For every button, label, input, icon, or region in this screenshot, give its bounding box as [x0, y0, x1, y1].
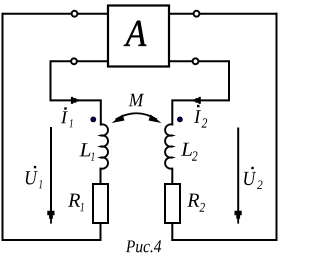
wire right outer vertical [276, 13, 278, 241]
inductor L2 (coil, humps left) [165, 124, 172, 168]
label I1 with overdot [61, 111, 73, 127]
terminal bottom-left [71, 58, 77, 64]
terminal top-right [194, 11, 200, 17]
terminal bottom-right [193, 58, 199, 64]
label L2 [181, 143, 197, 161]
wire L1 bottom lead [100, 168, 102, 184]
resistor R1 [93, 184, 108, 223]
mutual inductance arrow M (curved, two heads) [116, 113, 158, 119]
label U2 with overdot [244, 172, 262, 189]
polarity dot L1 [91, 117, 96, 122]
current arrow I2 (pointing left) [193, 97, 201, 104]
wire bottom-right [171, 239, 277, 241]
wire bottom-left [2, 239, 102, 241]
wire inner-left (box A lower-left terminal to L1) [51, 61, 109, 100]
caption Puc.4 [126, 240, 161, 252]
wire L1 top lead [100, 99, 102, 125]
wire L2 top lead [171, 99, 173, 125]
wire left outer vertical [2, 13, 4, 241]
terminal top-left [72, 11, 78, 17]
wire R2 bottom lead [171, 221, 173, 241]
box A (two-port network) [108, 6, 169, 67]
label R2 [187, 194, 205, 212]
resistor R2 [165, 184, 180, 223]
wire L2 bottom lead [171, 168, 173, 184]
voltage arrow U1 (down) [50, 127, 52, 212]
voltage arrow U2 (down) [237, 128, 239, 213]
inductor L1 (coil, humps right) [101, 124, 108, 168]
label I2 with overdot [194, 110, 207, 127]
polarity dot L2 [178, 117, 183, 122]
label R1 [68, 194, 84, 212]
wire top-right (box A to right outer corner) [169, 13, 278, 15]
label L1 [79, 143, 94, 161]
wire R1 bottom lead [100, 221, 102, 241]
label M [129, 94, 145, 107]
wire inner-right (box A lower-right terminal to L2) [169, 61, 229, 100]
wire top-left (box A to left outer corner) [3, 13, 109, 15]
label A [124, 21, 147, 46]
current arrow I1 (pointing right) [71, 97, 79, 104]
label U1 with overdot [26, 171, 42, 188]
